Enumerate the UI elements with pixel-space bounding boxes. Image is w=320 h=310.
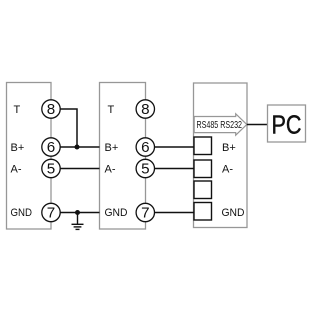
converter terminal square B+: [194, 137, 212, 155]
terminal pin 7 box1: [42, 203, 60, 221]
terminal pin 5 box1: [42, 159, 60, 177]
junction dot GND net: [75, 210, 80, 215]
wire pin8 box1 to B+ net: [51, 109, 77, 147]
svg-text:GND: GND: [11, 207, 33, 219]
svg-text:8: 8: [141, 101, 149, 118]
wire converter to PC: [247, 124, 268, 126]
svg-text:GND: GND: [105, 207, 128, 219]
svg-text:GND: GND: [222, 207, 245, 219]
svg-text:B+: B+: [222, 142, 236, 154]
module box 3 (converter): [194, 83, 248, 228]
junction dot B+ net: [75, 145, 80, 150]
svg-text:T: T: [108, 104, 115, 116]
svg-text:7: 7: [47, 205, 55, 222]
module box 2: [100, 83, 146, 230]
terminal pin 6 box2: [136, 138, 154, 156]
svg-text:A-: A-: [105, 164, 116, 176]
wire A- box2 to converter: [145, 168, 193, 170]
svg-text:6: 6: [141, 139, 149, 156]
terminal pin 8 box2: [136, 100, 154, 118]
svg-text:A-: A-: [11, 164, 22, 176]
svg-text:8: 8: [47, 101, 55, 118]
svg-text:B+: B+: [105, 142, 119, 154]
svg-text:A-: A-: [222, 164, 233, 176]
converter terminal square (unused): [194, 181, 212, 199]
wire GND box2 to converter: [145, 212, 193, 214]
wire B+ box1 to box2: [51, 146, 100, 148]
svg-text:5: 5: [47, 161, 55, 178]
svg-text:5: 5: [141, 161, 149, 178]
converter terminal square A-: [194, 160, 212, 178]
svg-text:T: T: [14, 104, 21, 116]
wire B+ box2 to converter: [145, 146, 193, 148]
PC box: [268, 105, 306, 142]
terminal pin 7 box2: [136, 203, 154, 221]
terminal pin 5 box2: [136, 159, 154, 177]
svg-text:7: 7: [141, 205, 149, 222]
svg-text:B+: B+: [11, 142, 25, 154]
ground symbol: [72, 213, 84, 230]
module box 1: [7, 83, 52, 230]
wire GND box1 to box2: [51, 212, 100, 214]
converter terminal square GND: [194, 203, 212, 221]
svg-text:RS485 RS232: RS485 RS232: [197, 119, 243, 131]
RS485/RS232 arrow: [194, 114, 247, 135]
terminal pin 8 box1: [42, 100, 60, 118]
wire A- box1 to box2: [51, 168, 100, 170]
svg-text:6: 6: [47, 139, 55, 156]
terminal pin 6 box1: [42, 138, 60, 156]
svg-text:PC: PC: [272, 112, 302, 140]
